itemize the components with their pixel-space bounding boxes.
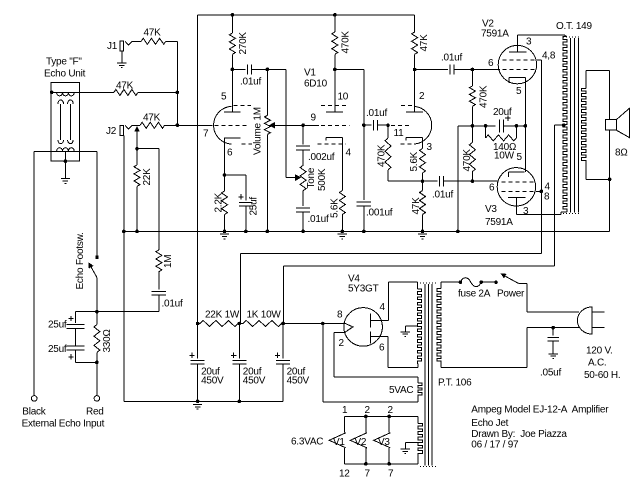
wire speaker bottom lead bbox=[609, 130, 611, 179]
wire .001uf bottom lead bbox=[363, 206, 365, 232]
PT core lamination bbox=[428, 284, 430, 465]
wire V1c plate lead bbox=[414, 70, 416, 113]
capacitor 25uf upper bbox=[67, 325, 85, 329]
speaker cone bbox=[616, 108, 629, 137]
plus 25uf lower bbox=[68, 354, 73, 359]
wire primary top lead bbox=[440, 282, 442, 288]
svg-text:External Echo Input: External Echo Input bbox=[22, 419, 105, 430]
resistor 5.6K (V1b) bbox=[339, 191, 345, 215]
svg-text:6: 6 bbox=[489, 183, 495, 194]
node tone at ground bus bbox=[301, 230, 305, 234]
svg-text:Echo Unit: Echo Unit bbox=[44, 69, 86, 80]
wire V1c plate to .01uf bbox=[415, 69, 448, 71]
svg-text:500K: 500K bbox=[317, 168, 328, 191]
plus 20uf #2 bbox=[231, 353, 236, 358]
node V1c plate bbox=[413, 68, 417, 72]
svg-text:2.2K: 2.2K bbox=[214, 192, 225, 212]
wire V3 plate to OT bottom bbox=[517, 214, 561, 216]
capacitor .01uf (to V3) bbox=[440, 176, 444, 186]
node top rail / 470K bbox=[333, 13, 337, 17]
wire echo to footswitch bbox=[96, 151, 98, 257]
wire primary return bbox=[441, 367, 527, 369]
OT core bottom dots bbox=[563, 213, 580, 215]
tube V4 envelope bbox=[344, 308, 383, 347]
node 140R right bbox=[515, 124, 519, 128]
wire 1M branch down bbox=[158, 149, 160, 250]
svg-text:5.6K: 5.6K bbox=[330, 198, 341, 218]
node filter 3 bbox=[281, 322, 285, 326]
V4 plate upper bbox=[369, 314, 371, 328]
node rectifier output bbox=[321, 322, 325, 326]
heater V2 filament bbox=[350, 433, 367, 448]
wire 5.6K to node bbox=[422, 173, 424, 181]
wire 270K bottom lead bbox=[231, 54, 233, 69]
wire 25uf bypass top lead bbox=[245, 175, 247, 200]
wire switch to plug bbox=[518, 282, 527, 284]
svg-text:6: 6 bbox=[227, 148, 233, 159]
svg-text:Type "F": Type "F" bbox=[46, 57, 82, 68]
node speaker return bbox=[608, 178, 612, 182]
ground J1 bbox=[117, 63, 126, 68]
wire V3 screen lead bbox=[536, 190, 542, 192]
wire B+ top rail bbox=[198, 14, 415, 16]
resistor 5.6K (V1c) bbox=[420, 148, 426, 173]
wire secondary bottom lead bbox=[585, 163, 587, 179]
svg-text:7591A: 7591A bbox=[481, 29, 509, 40]
wire 2.2K bottom lead bbox=[224, 215, 226, 232]
wire 5V winding bottom bbox=[323, 401, 418, 403]
wire 6.3V winding bottom lead bbox=[417, 456, 419, 464]
svg-text:10: 10 bbox=[338, 92, 349, 103]
wire J2 sleeve / ground link bbox=[123, 135, 125, 401]
wire between 25uf caps bbox=[75, 328, 77, 346]
svg-text:7: 7 bbox=[365, 469, 371, 480]
wire tone .002uf lead bbox=[302, 125, 304, 144]
plus 20uf #3 bbox=[275, 353, 280, 358]
svg-text:8Ω: 8Ω bbox=[615, 148, 628, 159]
svg-text:Volume 1M: Volume 1M bbox=[253, 107, 264, 155]
tube V3 envelope bbox=[497, 168, 535, 206]
V1b cathode bbox=[326, 137, 342, 140]
svg-text:8: 8 bbox=[544, 192, 550, 203]
echo delay winding left top bump bbox=[58, 100, 64, 104]
node 140R left bbox=[484, 124, 488, 128]
node V3 grid bbox=[471, 179, 475, 183]
wire V2 plate lead bbox=[516, 35, 518, 52]
tube V1 envelope top dash mid bbox=[321, 104, 348, 106]
svg-text:470K: 470K bbox=[377, 144, 388, 167]
wire B+ filter rail b bbox=[238, 323, 243, 325]
node 25uf at ground bus bbox=[244, 230, 248, 234]
wire 270K top lead bbox=[231, 15, 233, 33]
svg-text:450V: 450V bbox=[243, 376, 266, 387]
V4 plate lower bbox=[369, 331, 371, 343]
svg-text:7: 7 bbox=[388, 469, 394, 480]
V1a grid bbox=[215, 124, 249, 126]
jack J1 bbox=[120, 41, 124, 51]
svg-text:J2: J2 bbox=[106, 126, 117, 137]
V1a plate bbox=[224, 111, 241, 113]
wire 140R left drop bbox=[485, 126, 487, 138]
V1c grid bbox=[391, 124, 409, 126]
wire AC neutral to plug bbox=[527, 327, 579, 329]
plus 20uf #1 bbox=[189, 353, 194, 358]
wire .01uf to volume top bbox=[252, 68, 286, 70]
wire 5V winding top bbox=[334, 376, 418, 378]
wire J1 branch down bbox=[176, 41, 178, 125]
wire B+ filter rail c bbox=[282, 323, 344, 325]
wire V1b cathode lead bbox=[341, 137, 343, 190]
node .01uf / .001uf bbox=[362, 123, 366, 127]
svg-text:Red: Red bbox=[86, 407, 104, 418]
wire .001uf top lead bbox=[363, 125, 365, 200]
svg-text:1K 10W: 1K 10W bbox=[247, 310, 282, 321]
resistor 270K bbox=[229, 33, 235, 54]
capacitor .002uf bbox=[296, 146, 310, 150]
svg-text:10W: 10W bbox=[494, 151, 515, 162]
echo delay winding right bottom bump bbox=[68, 140, 74, 144]
wire plate 6 to HV bottom bbox=[388, 366, 418, 368]
wire plate 6 down bbox=[387, 337, 389, 368]
V1c cathode bbox=[406, 137, 423, 140]
svg-text:25uf: 25uf bbox=[249, 197, 260, 216]
wire V1b plate node bbox=[335, 68, 364, 70]
plus 25uf upper bbox=[68, 316, 73, 321]
ground echo center tap bbox=[61, 179, 70, 184]
wire screen rail bbox=[241, 253, 542, 255]
PT core lamination bbox=[424, 284, 426, 465]
heater V3 filament bbox=[374, 433, 391, 448]
AC plug body bbox=[577, 307, 592, 334]
jack J2 bbox=[120, 125, 124, 135]
node filter 2 bbox=[238, 322, 242, 326]
resistor 2.2K bbox=[222, 191, 228, 215]
wire 25uf chain bottom lead bbox=[75, 350, 77, 363]
svg-text:5: 5 bbox=[516, 86, 522, 97]
wire HV center tap down bbox=[404, 326, 406, 332]
wire to .01uf coupling bbox=[364, 124, 372, 126]
wire heater V2 top lead bbox=[365, 416, 367, 432]
wire AC hot to plug bbox=[527, 311, 579, 313]
svg-text:Echo Footsw.: Echo Footsw. bbox=[75, 232, 86, 289]
svg-text:.002uf: .002uf bbox=[308, 152, 335, 163]
OT core lamination bbox=[569, 38, 571, 213]
svg-text:5: 5 bbox=[221, 92, 227, 103]
wire heater V3 bottom lead bbox=[388, 448, 390, 464]
wire volume wiper stub bbox=[270, 124, 275, 126]
svg-text:5VAC: 5VAC bbox=[389, 385, 413, 396]
svg-text:5: 5 bbox=[517, 152, 523, 163]
jack J2 tip contact bbox=[125, 125, 132, 129]
AC plug prong bottom bbox=[592, 327, 604, 329]
svg-text:V3: V3 bbox=[485, 204, 497, 215]
svg-text:.05uf: .05uf bbox=[540, 368, 561, 379]
OT core lamination bbox=[573, 38, 575, 213]
svg-text:Ampeg Model EJ-12-A Amplifier: Ampeg Model EJ-12-A Amplifier bbox=[471, 405, 609, 416]
svg-text:6: 6 bbox=[379, 343, 385, 354]
wire 22K bottom lead bbox=[136, 186, 138, 231]
V2 plate bbox=[509, 51, 526, 53]
wire plate 4 up bbox=[387, 282, 389, 321]
wire preamp B+ feed (left vertical) bbox=[197, 15, 199, 324]
wire 25uf chain top lead bbox=[75, 312, 77, 323]
svg-text:.01uf: .01uf bbox=[308, 214, 329, 225]
wire 470K to bias node bbox=[471, 106, 473, 126]
svg-text:J1: J1 bbox=[107, 41, 118, 52]
wire footswitch down bbox=[96, 277, 98, 311]
echo return winding coil bbox=[57, 148, 75, 152]
wire J1 sleeve bbox=[121, 51, 123, 63]
svg-text:4: 4 bbox=[346, 148, 352, 159]
svg-text:25uf: 25uf bbox=[48, 344, 67, 355]
wire primary to fuse bbox=[441, 281, 461, 283]
wire V1b plate lead bbox=[334, 69, 336, 111]
tube V1 envelope top dash right bbox=[401, 104, 413, 106]
wire V4 plate 6 lead bbox=[370, 336, 387, 338]
svg-text:450V: 450V bbox=[201, 376, 224, 387]
fuse 2A bbox=[460, 278, 481, 287]
wire 5V winding bottom lead bbox=[417, 397, 419, 402]
node V1a plate bbox=[231, 68, 235, 72]
wire 20uf #1 bottom lead bbox=[197, 364, 199, 401]
resistor 22K 1W bbox=[200, 321, 238, 327]
footswitch contact bbox=[95, 256, 98, 259]
svg-text:06 / 17 / 97: 06 / 17 / 97 bbox=[471, 440, 519, 451]
OT secondary winding bbox=[582, 88, 586, 163]
PT primary winding bbox=[437, 289, 441, 364]
arrow tone wiper bbox=[295, 174, 301, 181]
wire heater bus top bbox=[345, 415, 419, 417]
wire heater bus bottom bbox=[345, 463, 419, 465]
svg-text:120 V.: 120 V. bbox=[586, 346, 613, 357]
svg-text:6: 6 bbox=[488, 58, 494, 69]
V1c plate bbox=[406, 111, 423, 113]
PT 6.3V winding bbox=[418, 424, 422, 457]
wire 47K plate load top lead bbox=[414, 15, 416, 32]
tube V2 envelope bbox=[498, 45, 536, 83]
node V3 screen at supply line bbox=[540, 190, 544, 194]
wire B+ rail drop bbox=[283, 266, 285, 324]
node V1a cathode bias bbox=[223, 173, 227, 177]
capacitor .05uf bbox=[547, 337, 559, 341]
V2 cathode bbox=[509, 78, 525, 84]
wire 25uf bypass bottom lead bbox=[245, 206, 247, 231]
svg-text:8: 8 bbox=[337, 310, 343, 321]
wire 5V winding top lead bbox=[417, 377, 419, 383]
node .001uf at ground bus bbox=[362, 230, 366, 234]
svg-text:5Y3GT: 5Y3GT bbox=[348, 284, 379, 295]
wire 6.3V winding top lead bbox=[417, 416, 419, 423]
node 2.2K at ground bus bbox=[223, 230, 227, 234]
node heater bus bottom V2 bbox=[364, 462, 368, 466]
AC plug prong top bbox=[592, 311, 604, 313]
wire 330R bottom lead bbox=[96, 352, 98, 362]
node footswitch / 330R top bbox=[95, 310, 99, 314]
ground HV center tap bbox=[401, 332, 410, 337]
svg-text:330Ω: 330Ω bbox=[102, 329, 113, 352]
wire 20uf #3 bottom lead bbox=[282, 364, 284, 401]
wire .01uf to V2 grid bbox=[454, 69, 500, 71]
wire tone .01uf bottom lead bbox=[302, 212, 304, 232]
node .05uf bbox=[551, 326, 555, 330]
wire 470K upper lead bbox=[471, 70, 473, 87]
wire .002uf to tone pot bbox=[302, 150, 304, 165]
node power ground 2 bbox=[238, 400, 242, 404]
potentiometer Volume 1M bbox=[264, 115, 270, 134]
svg-text:4,8: 4,8 bbox=[542, 51, 556, 62]
resistor 470K (V1b load) bbox=[332, 32, 338, 54]
wire AC hot down bbox=[526, 283, 528, 312]
svg-text:12: 12 bbox=[339, 469, 350, 480]
wire HV center tap bbox=[405, 325, 417, 327]
wire V1c cathode lead bbox=[422, 137, 424, 148]
node 22K top bbox=[135, 147, 139, 151]
tube V1 envelope bottom dash left bbox=[242, 143, 253, 145]
echo delay winding left bottom bump bbox=[58, 140, 64, 144]
svg-text:3: 3 bbox=[526, 37, 532, 48]
wire HV winding top lead bbox=[416, 282, 418, 289]
ground 47K bbox=[418, 234, 427, 239]
wire to Red terminal bbox=[96, 362, 98, 395]
svg-text:.001uf: .001uf bbox=[366, 208, 393, 219]
svg-text:.01uf: .01uf bbox=[366, 108, 387, 119]
wire V3 plate lead bbox=[516, 198, 518, 215]
svg-text:47K: 47K bbox=[411, 197, 422, 215]
wire AC neutral up bbox=[526, 328, 528, 368]
svg-text:.01uf: .01uf bbox=[162, 299, 183, 310]
svg-text:9: 9 bbox=[311, 113, 317, 124]
V3 cathode bbox=[509, 172, 525, 177]
svg-text:3: 3 bbox=[427, 142, 433, 153]
echo send winding coil bbox=[57, 92, 75, 96]
capacitor .01uf (V1a out) bbox=[248, 64, 252, 74]
wire V1a plate lead bbox=[231, 69, 233, 112]
node bias at ground bus bbox=[456, 230, 460, 234]
resistor 22K bbox=[134, 165, 140, 186]
wire 22K node to 1M branch bbox=[137, 148, 159, 150]
node 5.6K at ground bus bbox=[341, 230, 345, 234]
node volume at ground bus bbox=[266, 230, 270, 234]
echo unit transformer box bbox=[51, 82, 79, 161]
wire J2 to 47K bbox=[132, 124, 140, 126]
wire 1M to cap bbox=[158, 272, 160, 290]
ground 5.6K bbox=[338, 234, 347, 239]
footswitch lever bbox=[90, 265, 97, 277]
echo delay winding right wire bbox=[69, 104, 71, 140]
jack J1 tip contact bbox=[125, 41, 132, 45]
capacitor .01uf (tone) bbox=[296, 208, 310, 212]
svg-text:47K: 47K bbox=[116, 81, 134, 92]
capacitor 20uf 450V #2 bbox=[232, 360, 246, 364]
wire 470K grid leak top lead bbox=[387, 125, 389, 138]
speaker magnet bbox=[606, 120, 617, 131]
svg-text:270K: 270K bbox=[238, 32, 249, 55]
node switch contact bbox=[494, 280, 498, 284]
wire bias to ground bbox=[457, 126, 459, 232]
wire pin 2 to 5V winding bbox=[333, 332, 335, 377]
resistor 470K (V1c grid) bbox=[385, 138, 391, 170]
wire 470K top lead bbox=[334, 15, 336, 32]
wire 47K top lead bbox=[422, 181, 424, 190]
svg-text:V2: V2 bbox=[355, 437, 367, 448]
wire volume wiper to V1b grid bbox=[273, 124, 319, 126]
svg-text:6.3VAC: 6.3VAC bbox=[291, 437, 323, 448]
wire plate 4 to HV top bbox=[388, 281, 417, 283]
wire .05uf top lead bbox=[552, 328, 554, 336]
wire tone wiper lead bbox=[286, 177, 296, 179]
wire tone pot to .01uf bbox=[302, 191, 304, 207]
node phase inverter cathode out bbox=[421, 179, 425, 183]
wire to tone wiper bbox=[285, 69, 287, 177]
node fuse right bbox=[479, 280, 483, 284]
wire B+ filter rail a bbox=[198, 323, 200, 325]
capacitor 25uf bypass bbox=[239, 202, 253, 206]
svg-text:2: 2 bbox=[388, 405, 394, 416]
node heater bus top V3 bbox=[387, 415, 391, 419]
node heater bus bottom V3 bbox=[387, 462, 391, 466]
wire V2 screen lead bbox=[537, 59, 542, 61]
svg-text:V1: V1 bbox=[333, 437, 345, 448]
wire echo return lead bbox=[34, 150, 97, 152]
wire preamp ground bus bbox=[124, 230, 610, 232]
svg-text:47K: 47K bbox=[144, 28, 162, 39]
node tone top bbox=[301, 123, 305, 127]
wire heater V3 top lead bbox=[388, 416, 390, 432]
plus 20uf bbox=[505, 116, 510, 121]
wire screen supply line bbox=[540, 60, 542, 253]
arrow volume wiper bbox=[269, 122, 275, 129]
wire to Black terminal bbox=[33, 151, 35, 395]
svg-text:22K: 22K bbox=[142, 168, 153, 186]
terminal Black bbox=[31, 396, 37, 402]
wire echo send winding lead bbox=[51, 91, 79, 93]
wire secondary to speaker bbox=[586, 70, 610, 72]
capacitor .01uf (echo feed) bbox=[152, 291, 166, 295]
wire 20uf #2 bottom lead bbox=[238, 364, 240, 401]
resistor 47K (echo) bbox=[114, 89, 138, 95]
PT core bottom dots bbox=[420, 466, 436, 468]
wire 470K bottom lead bbox=[334, 54, 336, 69]
resistor 140R 10W bbox=[486, 135, 517, 141]
resistor 47K (V1c load) bbox=[412, 32, 418, 54]
wire heater V2 bottom lead bbox=[365, 448, 367, 464]
PT 5V winding bbox=[418, 383, 422, 397]
wire echo mix node bbox=[76, 311, 159, 313]
tube V1 envelope bottom dash right bbox=[401, 143, 413, 145]
node V1b plate bbox=[333, 68, 337, 72]
wire V4 filament pin 2 bbox=[334, 331, 345, 333]
svg-text:2: 2 bbox=[365, 405, 371, 416]
wire secondary bottom bbox=[586, 178, 610, 180]
svg-text:P.T. 106: P.T. 106 bbox=[438, 378, 472, 389]
svg-text:A.C.: A.C. bbox=[588, 358, 606, 369]
svg-text:4: 4 bbox=[380, 302, 386, 313]
wire 2.2K top lead bbox=[224, 175, 226, 191]
wire power ground bus bbox=[124, 400, 283, 402]
echo delay winding right top bump bbox=[68, 100, 74, 104]
capacitor 20uf 450V #3 bbox=[276, 360, 290, 364]
wire echo to 47K bbox=[80, 91, 114, 93]
svg-text:11: 11 bbox=[394, 128, 405, 139]
node OT center tap bbox=[562, 123, 566, 127]
wire OT bottom end rise bbox=[560, 212, 562, 215]
wire echo center tap bbox=[64, 151, 66, 178]
ground power supply bbox=[193, 404, 202, 409]
svg-text:470K: 470K bbox=[479, 85, 490, 108]
wire V4 plate 4 lead bbox=[370, 319, 388, 321]
wire V1a cathode lead bbox=[224, 143, 226, 175]
resistor 330R bbox=[94, 325, 100, 353]
